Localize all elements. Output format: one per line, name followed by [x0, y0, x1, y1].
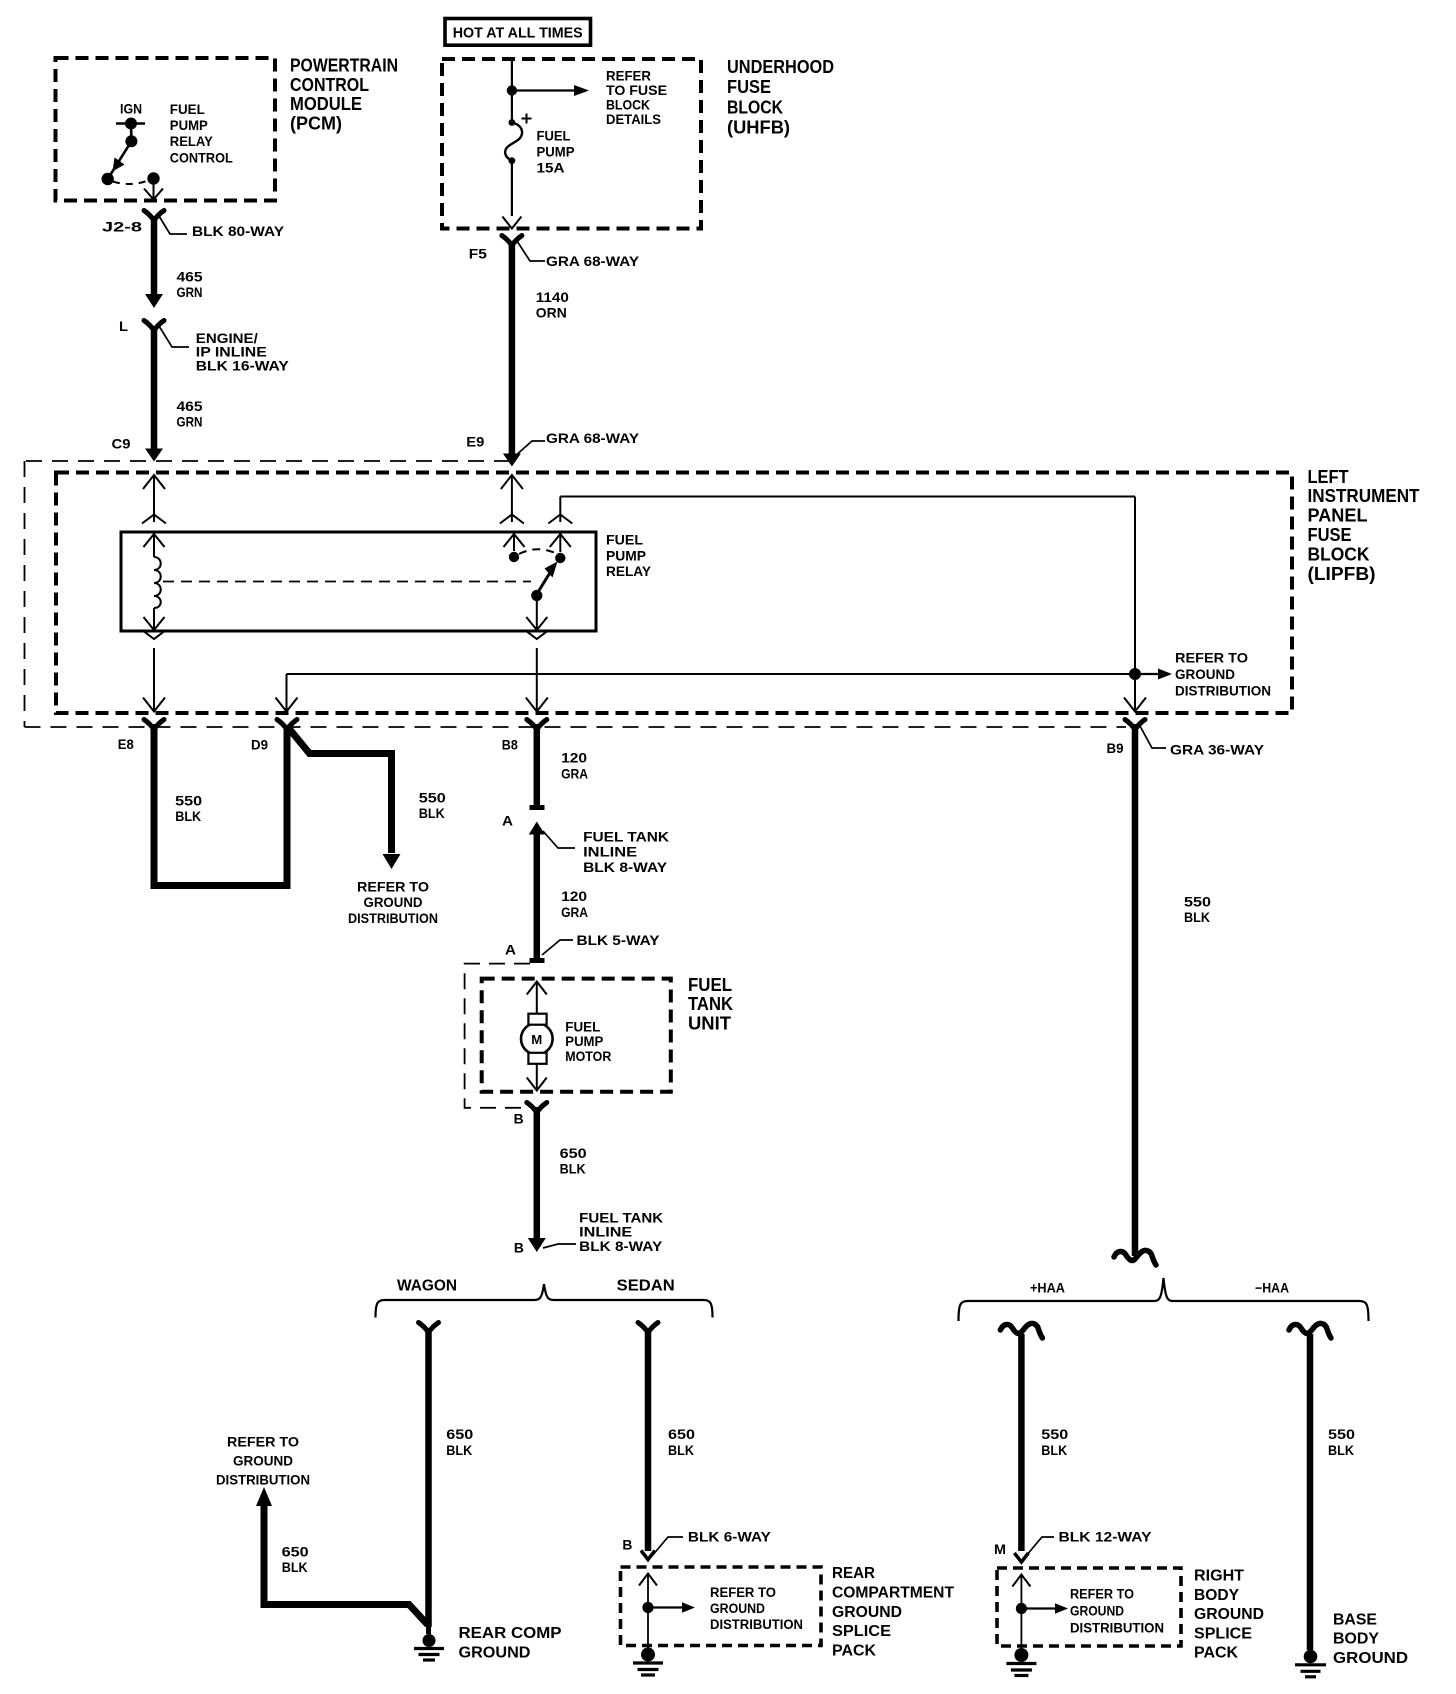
L label [119, 318, 128, 334]
svg-text:650: 650 [560, 1145, 587, 1161]
A label upper [502, 813, 513, 829]
engine/IP inline connector terminal L [144, 321, 164, 331]
svg-text:120: 120 [561, 750, 587, 766]
svg-text:650: 650 [446, 1426, 473, 1442]
svg-text:BLK: BLK [282, 1559, 308, 1575]
svg-text:C9: C9 [112, 436, 131, 452]
left instrument panel fuse block (LIPFB) dashed box [56, 473, 1292, 714]
svg-text:E9: E9 [466, 434, 484, 450]
leader GRA 68-WAY lower [514, 441, 545, 457]
svg-text:GRA: GRA [561, 765, 588, 781]
svg-text:IGN: IGN [120, 101, 142, 117]
leader BLK 6-WAY [652, 1537, 683, 1556]
svg-text:FUEL: FUEL [606, 532, 643, 548]
svg-text:GRA 36-WAY: GRA 36-WAY [1170, 742, 1265, 758]
svg-text:MOTOR: MOTOR [565, 1049, 611, 1064]
svg-text:B8: B8 [502, 737, 518, 753]
FUEL PUMP MOTOR label [565, 1019, 611, 1064]
wire 650 BLK wagon [425, 1328, 432, 1627]
relay fixed contact right [555, 553, 565, 563]
wire 550 BLK from B9 [1132, 724, 1139, 1256]
leader BLK 80-WAY [159, 216, 187, 234]
550 BLK label +HAA [1041, 1426, 1068, 1458]
wire 1140 ORN [503, 241, 521, 467]
svg-text:120: 120 [561, 888, 587, 904]
465 GRN label upper [177, 269, 203, 301]
REFER TO GROUND DISTRIBUTION label (right splice) [1070, 1586, 1164, 1635]
svg-text:BLOCK: BLOCK [727, 97, 783, 117]
svg-text:GROUND: GROUND [459, 1644, 531, 1661]
leader ENGINE/IP INLINE [159, 326, 189, 347]
fuel pump relay box [121, 532, 596, 631]
FUEL TANK INLINE BLK 8-WAY label [583, 828, 669, 875]
leader GRA 68-WAY upper [517, 241, 545, 261]
svg-text:550: 550 [1041, 1426, 1068, 1442]
svg-text:PUMP: PUMP [606, 547, 646, 563]
550 BLK label B9 [1184, 894, 1211, 926]
FUEL PUMP 15A label [537, 128, 575, 176]
F5 label [469, 246, 487, 262]
svg-text:BLK: BLK [175, 808, 201, 824]
svg-text:D9: D9 [251, 737, 268, 753]
GRA 68-WAY label lower [546, 430, 640, 446]
rear comp ground symbol [414, 1624, 444, 1660]
connector F5 terminal [502, 236, 522, 246]
right splice pack refer arrow [1026, 1603, 1068, 1614]
fuel tank unit pin terminal [530, 950, 545, 961]
B label upper [514, 1111, 524, 1127]
svg-text:DISTRIBUTION: DISTRIBUTION [216, 1472, 310, 1488]
right splice pack ground symbol [1006, 1646, 1036, 1676]
svg-text:REFER TO: REFER TO [1175, 650, 1248, 666]
svg-text:GROUND: GROUND [1333, 1650, 1408, 1667]
svg-text:BLK 80-WAY: BLK 80-WAY [192, 223, 285, 239]
svg-text:PUMP: PUMP [537, 144, 575, 160]
refer to ground distribution arrow (LIPFB) [1141, 669, 1172, 680]
wire 120 GRA upper [530, 724, 545, 808]
svg-text:POWERTRAIN: POWERTRAIN [290, 56, 398, 76]
UHFB name label [727, 57, 834, 138]
connector E8 terminal [144, 720, 164, 730]
svg-text:INLINE: INLINE [583, 844, 637, 860]
leader BLK 12-WAY [1026, 1537, 1054, 1556]
BLK 12-WAY label [1059, 1529, 1153, 1545]
REAR COMP GROUND label [459, 1625, 562, 1661]
1140 ORN label [536, 289, 569, 321]
B9 label [1107, 740, 1124, 756]
650 BLK label sedan [668, 1426, 695, 1458]
wire 120 GRA lower [534, 832, 541, 950]
wire 650 BLK from fuel tank [528, 1107, 546, 1252]
465 GRN label lower [177, 398, 203, 430]
wire 550 BLK -HAA [1307, 1334, 1314, 1650]
svg-text:B: B [514, 1111, 524, 1127]
svg-text:DISTRIBUTION: DISTRIBUTION [1070, 1620, 1164, 1635]
refer to fuse block details arrow [516, 85, 589, 96]
C9 entry arrow into LIPFB [142, 475, 166, 524]
relay internal dashed link [163, 581, 531, 583]
relay movable arm [537, 562, 558, 595]
B8 label [502, 737, 518, 753]
+HAA label [1030, 1281, 1065, 1296]
BLK 5-WAY label [577, 932, 661, 948]
REFER TO GROUND DISTRIBUTION label (branch) [348, 879, 438, 926]
svg-text:REFER TO: REFER TO [357, 879, 429, 895]
svg-text:FUEL: FUEL [537, 128, 571, 144]
connector face thin dashed boundary [25, 461, 1127, 727]
svg-text:DISTRIBUTION: DISTRIBUTION [348, 910, 438, 926]
svg-text:TANK: TANK [688, 994, 733, 1014]
svg-text:UNDERHOOD: UNDERHOOD [727, 57, 834, 77]
svg-text:E8: E8 [118, 736, 134, 752]
connector J2-8 terminal [144, 211, 164, 221]
rear compartment ground splice pack dashed box [621, 1567, 822, 1646]
fuel pump relay control driver symbol [102, 118, 160, 186]
connector D9 terminal [277, 720, 297, 730]
120 GRA label lower [561, 888, 588, 920]
E8 exit path inside LIPFB [142, 630, 166, 712]
svg-text:BASE: BASE [1333, 1611, 1377, 1628]
fuel tank unit pin B terminal [527, 1103, 547, 1113]
svg-text:−HAA: −HAA [1255, 1281, 1289, 1296]
svg-text:465: 465 [177, 269, 203, 285]
connector B8 terminal [527, 720, 547, 730]
svg-text:GROUND: GROUND [364, 894, 423, 910]
+HAA/-HAA brace [959, 1278, 1369, 1321]
relay contact dashed travel arc [519, 549, 555, 554]
B label sedan [622, 1537, 632, 1553]
svg-text:BLK 5-WAY: BLK 5-WAY [577, 932, 661, 948]
leader GRA 36-WAY [1140, 726, 1166, 748]
REFER TO GROUND DISTRIBUTION label (bottom left) [216, 1434, 310, 1488]
wagon/sedan brace [376, 1284, 713, 1318]
svg-text:REAR COMP: REAR COMP [459, 1625, 562, 1642]
svg-text:SEDAN: SEDAN [617, 1278, 675, 1295]
svg-text:UNIT: UNIT [688, 1013, 731, 1033]
rear splice pack ground symbol [633, 1646, 663, 1676]
svg-text:CONTROL: CONTROL [290, 75, 369, 95]
svg-text:BLK: BLK [668, 1442, 694, 1458]
svg-text:GRA 68-WAY: GRA 68-WAY [546, 253, 640, 269]
fuel tank unit dashed box [482, 979, 671, 1092]
relay coil pin arrow [144, 534, 165, 557]
svg-text:DISTRIBUTION: DISTRIBUTION [1175, 683, 1271, 699]
fuel tank unit outer thin boundary [465, 964, 530, 1108]
BLK 6-WAY label [688, 1529, 772, 1545]
svg-text:RELAY: RELAY [170, 133, 214, 149]
LIPFB name label [1308, 467, 1420, 584]
BLK 80-WAY label [192, 223, 285, 239]
svg-text:GROUND: GROUND [233, 1453, 293, 1469]
550 BLK label -HAA [1328, 1426, 1355, 1458]
svg-text:15A: 15A [537, 160, 565, 176]
svg-text:BODY: BODY [1194, 1587, 1239, 1604]
wire 465 GRN lower [145, 326, 163, 462]
svg-text:L: L [119, 318, 128, 334]
svg-text:B: B [622, 1537, 632, 1553]
relay fixed contact feed arrow [504, 534, 525, 551]
svg-text:GRA 68-WAY: GRA 68-WAY [546, 430, 640, 446]
REFER TO GROUND DISTRIBUTION label (LIPFB) [1175, 650, 1271, 699]
fuse FUEL PUMP 15A symbol [505, 114, 531, 165]
motor feed arrow [527, 982, 547, 1015]
relay coil [154, 557, 161, 608]
PCM output pin arrow [144, 184, 163, 200]
svg-text:DISTRIBUTION: DISTRIBUTION [710, 1617, 803, 1632]
connector B9 terminal [1125, 720, 1145, 730]
svg-text:550: 550 [1328, 1426, 1355, 1442]
sedan branch terminal [638, 1323, 658, 1333]
svg-text:BLK 8-WAY: BLK 8-WAY [579, 1238, 663, 1254]
HOT AT ALL TIMES box [445, 19, 591, 46]
svg-text:REFER TO: REFER TO [227, 1434, 299, 1450]
svg-text:FUEL TANK: FUEL TANK [583, 828, 669, 844]
svg-text:LEFT: LEFT [1308, 467, 1349, 487]
svg-text:PACK: PACK [1194, 1645, 1238, 1662]
svg-text:SPLICE: SPLICE [832, 1623, 891, 1640]
fuel tank inline connector arrow [529, 822, 545, 835]
svg-text:A: A [505, 942, 516, 958]
svg-text:GROUND: GROUND [1194, 1606, 1264, 1623]
E9 label [466, 434, 484, 450]
550 BLK label at branch [419, 789, 446, 821]
svg-text:WAGON: WAGON [397, 1278, 457, 1295]
svg-text:PUMP: PUMP [170, 117, 208, 133]
650 BLK label (tank) [560, 1145, 587, 1177]
svg-text:PACK: PACK [832, 1642, 876, 1659]
svg-text:GROUND: GROUND [832, 1604, 902, 1621]
svg-text:MODULE: MODULE [290, 94, 362, 114]
E9 entry arrow into LIPFB [500, 475, 524, 524]
svg-text:BLOCK: BLOCK [1308, 544, 1370, 564]
svg-text:+HAA: +HAA [1030, 1281, 1065, 1296]
base body ground symbol [1295, 1650, 1326, 1677]
right body ground splice pack dashed box [997, 1568, 1181, 1646]
svg-text:FUSE: FUSE [1308, 525, 1352, 545]
svg-text:GROUND: GROUND [1175, 666, 1235, 682]
ground bus junction node [1129, 668, 1141, 680]
svg-text:550: 550 [419, 789, 446, 805]
550 BLK label left [175, 793, 202, 825]
inline connector half at -HAA branch [1289, 1323, 1331, 1338]
relay coil lower pin arrow [144, 608, 165, 630]
svg-text:FUEL: FUEL [565, 1019, 600, 1034]
svg-text:FUEL: FUEL [688, 975, 732, 995]
wire 550 BLK +HAA [1014, 1334, 1028, 1562]
A label lower [505, 942, 516, 958]
svg-text:(LIPFB): (LIPFB) [1308, 564, 1376, 584]
svg-text:1140: 1140 [536, 289, 569, 305]
REFER TO GROUND DISTRIBUTION label (rear splice) [710, 1585, 803, 1632]
svg-text:REAR: REAR [832, 1565, 875, 1582]
PCM name label [290, 56, 398, 134]
svg-text:FUSE: FUSE [727, 77, 771, 97]
wagon branch terminal [419, 1323, 439, 1333]
svg-text:BLK: BLK [1328, 1442, 1354, 1458]
svg-text:HOT AT ALL TIMES: HOT AT ALL TIMES [453, 26, 583, 42]
motor return arrow [527, 1064, 547, 1091]
120 GRA label upper [561, 750, 588, 782]
svg-text:465: 465 [177, 398, 203, 414]
svg-text:BLK: BLK [1041, 1442, 1067, 1458]
powertrain control module (PCM) dashed box [56, 58, 276, 201]
C9 label [112, 436, 131, 452]
svg-text:550: 550 [175, 793, 202, 809]
leader FUEL TANK INLINE lower [543, 1244, 576, 1248]
relay switched contact arrow [550, 534, 571, 552]
650 BLK label wagon [446, 1426, 473, 1458]
svg-text:PANEL: PANEL [1308, 506, 1368, 526]
IGN label [120, 101, 142, 117]
REAR COMPARTMENT GROUND SPLICE PACK label [832, 1565, 954, 1659]
svg-text:BLK: BLK [419, 805, 445, 821]
svg-text:B9: B9 [1107, 740, 1124, 756]
relay fixed contact left [509, 552, 519, 562]
svg-text:REFER TO: REFER TO [1070, 1586, 1134, 1601]
svg-text:COMPARTMENT: COMPARTMENT [832, 1585, 954, 1602]
E8 label [118, 736, 134, 752]
fuel pump motor symbol [521, 1014, 553, 1064]
GRA 36-WAY label [1170, 742, 1265, 758]
wire 550 BLK from D9 to ground distribution [289, 729, 401, 870]
svg-text:SPLICE: SPLICE [1194, 1625, 1252, 1642]
svg-text:RELAY: RELAY [606, 563, 652, 579]
svg-text:550: 550 [1184, 894, 1211, 910]
svg-text:RIGHT: RIGHT [1194, 1568, 1244, 1585]
wire 650 BLK wagon ground branch [256, 1487, 428, 1625]
svg-text:FUEL: FUEL [170, 101, 205, 117]
RIGHT BODY GROUND SPLICE PACK label [1194, 1568, 1264, 1662]
svg-text:REFER TO: REFER TO [710, 1585, 776, 1600]
relay arm pivot node [531, 590, 542, 601]
rear splice pack input arrow [639, 1574, 657, 1646]
rear splice pack junction node [642, 1602, 653, 1613]
svg-text:DETAILS: DETAILS [606, 111, 661, 127]
D9 label [251, 737, 268, 753]
svg-text:M: M [994, 1541, 1006, 1557]
svg-text:BODY: BODY [1333, 1631, 1379, 1648]
BASE BODY GROUND label [1333, 1611, 1408, 1667]
FUEL PUMP RELAY label [606, 532, 652, 579]
svg-text:BLK: BLK [560, 1161, 586, 1177]
right splice pack junction node [1016, 1603, 1027, 1614]
svg-text:BLK 6-WAY: BLK 6-WAY [688, 1529, 772, 1545]
ground bus wire inside LIPFB [276, 674, 1130, 712]
switched output wire to B9 side [548, 497, 1135, 671]
svg-text:B: B [514, 1239, 524, 1255]
WAGON label [397, 1278, 457, 1295]
inline connector half at B9 wire end [1114, 1250, 1156, 1265]
ENGINE/IP INLINE BLK 16-WAY label [196, 330, 290, 374]
FUEL PUMP RELAY CONTROL label [170, 101, 233, 165]
svg-text:650: 650 [282, 1544, 309, 1560]
wire from junction to fuse [511, 93, 513, 120]
svg-text:GROUND: GROUND [1070, 1603, 1124, 1618]
svg-text:BLK: BLK [1184, 909, 1210, 925]
svg-text:BLK 12-WAY: BLK 12-WAY [1059, 1529, 1153, 1545]
svg-text:650: 650 [668, 1426, 695, 1442]
wire from hot feed into fuse block [511, 59, 513, 88]
svg-text:(UHFB): (UHFB) [727, 118, 790, 138]
svg-text:GRN: GRN [177, 284, 203, 300]
svg-text:BLK: BLK [446, 1442, 472, 1458]
HOT AT ALL TIMES label [453, 26, 583, 42]
wire 550 BLK jumper E8 to D9 [154, 724, 287, 886]
svg-text:INSTRUMENT: INSTRUMENT [1308, 486, 1420, 506]
svg-text:(PCM): (PCM) [290, 114, 342, 134]
leader BLK 5-WAY [542, 940, 573, 955]
svg-text:PUMP: PUMP [565, 1034, 603, 1049]
svg-text:F5: F5 [469, 246, 487, 262]
svg-text:BLK 16-WAY: BLK 16-WAY [196, 357, 290, 373]
650 BLK label branch [282, 1544, 309, 1576]
svg-text:GRA: GRA [561, 904, 588, 920]
GRA 68-WAY label upper [546, 253, 640, 269]
wire 465 GRN upper [145, 216, 163, 308]
svg-text:CONTROL: CONTROL [170, 149, 233, 165]
inline connector half at +HAA branch [1000, 1323, 1042, 1338]
wire from fuse to F5 pin [502, 162, 521, 229]
B label lower [514, 1239, 524, 1255]
leader FUEL TANK INLINE [543, 831, 575, 848]
svg-text:GRN: GRN [177, 414, 203, 430]
svg-text:M: M [531, 1033, 542, 1047]
svg-text:A: A [502, 813, 513, 829]
svg-text:BLK 8-WAY: BLK 8-WAY [583, 859, 668, 875]
REFER TO FUSE BLOCK DETAILS label [606, 68, 667, 128]
rear splice pack refer arrow [653, 1602, 695, 1613]
relay arm lower pin arrow [526, 598, 547, 630]
wire 650 BLK sedan [641, 1328, 655, 1560]
FUEL TANK UNIT name label [688, 975, 733, 1034]
-HAA label [1255, 1281, 1289, 1296]
right splice pack input arrow [1012, 1575, 1030, 1647]
junction node in UHFB [507, 85, 517, 95]
SEDAN label [617, 1278, 675, 1295]
svg-text:GROUND: GROUND [710, 1601, 765, 1616]
B9 exit arrow inside LIPFB [1124, 680, 1146, 712]
FUEL TANK INLINE BLK 8-WAY label lower [579, 1209, 663, 1254]
B8 exit path inside LIPFB [525, 630, 549, 712]
svg-text:ORN: ORN [536, 305, 567, 321]
svg-text:J2-8: J2-8 [102, 219, 142, 235]
J2-8 label [102, 219, 142, 235]
M label [994, 1541, 1006, 1557]
underhood fuse block (UHFB) dashed box [442, 59, 701, 229]
